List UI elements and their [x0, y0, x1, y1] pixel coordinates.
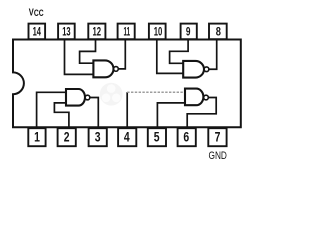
- svg-text:GND: GND: [209, 150, 227, 162]
- svg-text:5: 5: [154, 130, 160, 145]
- wire pin4 vertical: [126, 92, 128, 127]
- svg-text:13: 13: [62, 24, 71, 38]
- wire pin2 to gate U3 input B: [54, 103, 69, 127]
- svg-text:8: 8: [216, 24, 221, 38]
- wire U2 output to pin 8: [209, 40, 217, 70]
- pin 8 box: [209, 24, 227, 40]
- svg-text:2: 2: [64, 130, 70, 145]
- U3 output bubble: [85, 95, 90, 100]
- wire pin1 to gate U3 input A: [37, 92, 66, 127]
- wire pin5 to gate U4 input B: [157, 103, 185, 127]
- wire pin13 to gate U1 input B: [65, 40, 94, 75]
- svg-text:CC: CC: [34, 8, 44, 18]
- pin 3 box: [89, 128, 107, 146]
- svg-text:11: 11: [124, 24, 131, 38]
- U4 output bubble: [204, 95, 209, 100]
- svg-text:12: 12: [93, 24, 102, 38]
- NAND gate U4 (pins 4,5 -> 6): [185, 89, 203, 106]
- pin 7 box: [208, 128, 226, 146]
- wire U1 output to pin 11: [118, 40, 125, 69]
- wire U4 output to pin 6: [187, 98, 216, 128]
- IC package body with notch: [13, 40, 241, 128]
- NAND gate U2 (pins 9,10 -> 8): [183, 61, 204, 78]
- watermark circle logo: [100, 83, 123, 106]
- wire pin10 to gate U2 input B: [157, 40, 183, 74]
- svg-text:10: 10: [154, 24, 163, 38]
- svg-text:6: 6: [183, 130, 189, 145]
- svg-text:3: 3: [95, 130, 101, 145]
- svg-text:7: 7: [215, 130, 221, 145]
- U1 output bubble: [114, 67, 119, 72]
- svg-text:14: 14: [33, 24, 42, 38]
- pin 14 box: [29, 24, 46, 40]
- U2 output bubble: [204, 67, 209, 72]
- pin 5 box: [148, 128, 166, 146]
- wire pin12 to gate U1 input A: [80, 40, 96, 64]
- svg-text:9: 9: [186, 24, 191, 38]
- pin 9 box: [181, 24, 197, 40]
- pin 13 box: [58, 24, 75, 40]
- NAND gate U3 (pins 1,2 -> 3): [66, 89, 85, 106]
- wire pin9 to gate U2 input A: [170, 40, 189, 64]
- wire U3 output to pin 3: [90, 98, 98, 128]
- wire pin4 horizontal (faded by watermark): [127, 91, 185, 93]
- pin 1 box: [28, 128, 45, 146]
- pin 11 box: [118, 24, 135, 40]
- pin 12 box: [88, 24, 105, 40]
- pin 2 box: [58, 128, 76, 146]
- svg-text:1: 1: [34, 130, 40, 145]
- svg-text:4: 4: [124, 130, 130, 145]
- pin 4 box: [118, 128, 136, 146]
- pin 6 box: [178, 128, 196, 146]
- pin 10 box: [149, 24, 166, 40]
- NAND gate U1 (pins 12,13 -> 11): [93, 60, 113, 77]
